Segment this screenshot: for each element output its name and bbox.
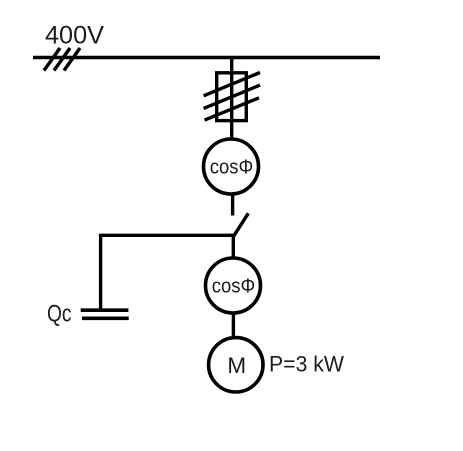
svg-text:cosΦ: cosΦ	[212, 276, 256, 298]
wire bus 400V	[33, 56, 380, 59]
wire meter 2 to motor	[232, 312, 235, 339]
three-phase slashes on fuse	[204, 73, 260, 121]
wire switch to meter 2	[232, 234, 235, 260]
meter cosPhi 1	[204, 139, 259, 194]
wire branch down to capacitor	[99, 234, 102, 309]
capacitor Qc plate bottom	[82, 316, 129, 320]
capacitor Qc plate top	[81, 308, 129, 312]
svg-text:P=3 kW: P=3 kW	[269, 352, 344, 377]
switch S1 blade	[234, 213, 249, 236]
svg-text:Qc: Qc	[47, 301, 72, 328]
motor M	[209, 338, 263, 392]
wire branch to capacitor	[101, 234, 234, 237]
svg-text:cosΦ: cosΦ	[210, 157, 254, 179]
svg-text:M: M	[227, 353, 246, 378]
svg-text:400V: 400V	[45, 22, 104, 50]
three-phase slashes on bus	[44, 48, 80, 71]
wire bus to meter 1	[230, 58, 233, 141]
meter cosPhi 2	[206, 258, 261, 313]
wire meter 1 to switch	[231, 193, 234, 216]
fuse F1 body	[217, 73, 247, 121]
